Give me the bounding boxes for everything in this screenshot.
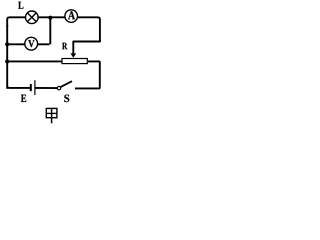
label L xyxy=(18,2,23,9)
label jia (Chinese character for diagram A) drawn as strokes xyxy=(46,108,57,123)
voltmeter V circle xyxy=(25,37,38,50)
wire right rail to slider xyxy=(73,40,100,54)
battery E positive plate (long thin) xyxy=(34,80,36,95)
wire bottom left (corner to battery) xyxy=(7,86,30,88)
wire left rail xyxy=(6,25,8,89)
voltmeter V letter xyxy=(28,40,34,47)
battery E negative plate (short thick) xyxy=(30,84,32,91)
rheostat R body xyxy=(62,59,87,64)
wire rheostat right lead down to bottom wire xyxy=(75,61,100,88)
ammeter A letter xyxy=(68,11,75,19)
wire voltmeter branch vertical xyxy=(49,18,51,45)
junction dot rheostat-left rail xyxy=(5,59,9,63)
junction dot at lamp-ammeter node xyxy=(48,16,52,20)
ammeter A circle xyxy=(65,10,78,23)
wire rheostat left lead xyxy=(7,60,61,62)
wire top (left rail top corner to top-right corner) xyxy=(7,17,100,41)
switch S pivot circle xyxy=(57,86,60,89)
label R xyxy=(62,43,67,50)
label E xyxy=(21,95,26,102)
lamp L cross xyxy=(28,13,36,21)
label S xyxy=(64,95,69,103)
junction dot voltmeter-left rail xyxy=(5,42,9,46)
wire battery to switch xyxy=(35,87,57,89)
rheostat slider arrowhead xyxy=(70,53,76,57)
switch S lever xyxy=(61,81,72,87)
lamp L circle xyxy=(26,11,39,24)
wire voltmeter branch horizontal xyxy=(7,43,49,45)
